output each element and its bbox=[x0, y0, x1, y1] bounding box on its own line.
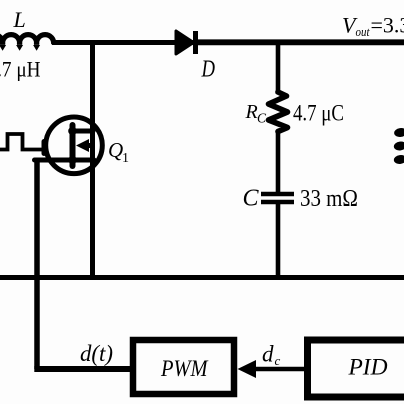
svg-text:Q: Q bbox=[108, 138, 123, 162]
svg-text:33 mΩ: 33 mΩ bbox=[300, 186, 358, 212]
svg-text:4.7 μH: 4.7 μH bbox=[0, 57, 41, 82]
transistor Q1 source arrow bbox=[76, 139, 93, 152]
resistor RC bbox=[269, 92, 288, 132]
node drain stub junction dot bbox=[68, 127, 77, 136]
wire below capacitor bbox=[276, 204, 281, 277]
svg-text:D: D bbox=[201, 57, 215, 83]
wire vertical drain branch bbox=[90, 40, 95, 277]
transistor Q1 circle bbox=[46, 117, 103, 174]
wire feedback vertical bbox=[34, 160, 40, 369]
ground rail bottom bbox=[0, 275, 404, 280]
label Q1 bbox=[108, 138, 129, 166]
svg-text:C: C bbox=[243, 186, 260, 212]
PID block bbox=[308, 340, 404, 397]
wire between RC and C bbox=[276, 130, 281, 192]
gate waveform pulse bbox=[0, 134, 44, 150]
svg-text:4.7 μC: 4.7 μC bbox=[293, 101, 344, 126]
resistor R load (cropped at right edge) bbox=[393, 127, 404, 164]
capacitor C bbox=[261, 194, 294, 202]
wire feedback horizontal to PWM bbox=[34, 366, 131, 372]
svg-text:PID: PID bbox=[347, 355, 387, 380]
wire top rail from inductor to right edge bbox=[52, 40, 196, 45]
svg-text:out: out bbox=[356, 24, 370, 39]
arrow dc from PID to PWM bbox=[238, 360, 308, 378]
wire vertical output branch top bbox=[276, 40, 281, 94]
svg-text:d: d bbox=[262, 342, 274, 367]
svg-text:c: c bbox=[275, 353, 281, 368]
wire gate return line through circle bottom bbox=[35, 158, 95, 163]
label Vout = 3.3 bbox=[342, 13, 404, 40]
svg-text:R: R bbox=[245, 101, 258, 123]
svg-text:1: 1 bbox=[122, 151, 129, 166]
transistor Q1 gate bar at circle edge bbox=[42, 142, 47, 154]
inductor L bbox=[0, 35, 54, 51]
transistor Q1 channel bar bbox=[70, 125, 76, 166]
label dc bbox=[262, 342, 281, 369]
svg-text:C: C bbox=[257, 111, 267, 126]
transistor Q1 drain stub bbox=[73, 129, 94, 134]
svg-text:PWM: PWM bbox=[160, 356, 209, 381]
PWM block bbox=[133, 340, 234, 394]
diode D bbox=[176, 31, 196, 54]
node source stub junction dot bbox=[68, 156, 77, 165]
svg-text:L: L bbox=[13, 7, 26, 32]
svg-text:=3.3: =3.3 bbox=[371, 13, 404, 38]
label RC bbox=[245, 101, 268, 126]
svg-text:d(t): d(t) bbox=[80, 341, 113, 366]
